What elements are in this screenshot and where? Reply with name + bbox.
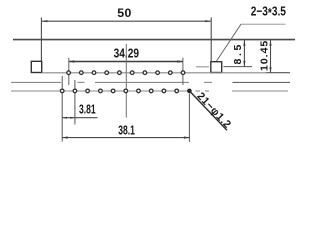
bottom hole row: 11 holes phi1.2 [60,89,178,93]
svg-text:10.45: 10.45 [258,40,270,71]
dimension 34.29 : dim line [69,61,183,63]
extension tick through top hole 1 (34.29 left ext) [68,58,70,85]
svg-text:2−3*3.5: 2−3*3.5 [251,4,287,20]
dimension 50 : right extension line [210,18,212,62]
top hole row: 10 holes phi1.2 [67,71,185,75]
top edge line of part [13,39,295,41]
svg-text:3.81: 3.81 [79,103,96,117]
svg-text:50: 50 [117,6,131,20]
dimension 8.5 : bottom arrow [243,61,245,67]
dimension 10.45 : dim line [270,40,272,73]
leader 21-phi1.2 : line [189,91,227,130]
svg-text:8.5: 8.5 [232,42,244,64]
squares centerline (dash left of right square) [196,66,209,68]
dimension 3.81 : dim line with shelf [62,117,97,119]
dimension 50 : left arrow [42,20,48,22]
dimension 10.45 : bottom arrow [269,67,271,73]
dimension 50 : right arrow [205,20,211,22]
left mounting square 3x3.5 [31,61,41,72]
dimension 8.5 : top arrow [243,40,245,46]
svg-text:38.1: 38.1 [118,124,135,138]
dimension 34.29 : right arrow [177,60,183,62]
label 2-3*3.5 : leader diagonal to right square [216,24,241,61]
dimension 38.1 : left arrow [62,136,67,138]
dimension 50 : left extension line [40,18,42,62]
dimension 3.81 : arrows [62,117,67,119]
dimension 38.1 : right arrow [184,136,190,138]
dimension 34.29 : left arrow [69,60,75,62]
top hole row centerline dark right segment / 10.45 extension [266,72,290,74]
bottom hole row centerline [11,90,288,92]
right mounting square 3x3.5 [211,62,222,73]
dimension 8.5 : dim line [243,40,245,66]
label 2-3*3.5 : leader shelf [241,23,286,25]
vertical centerline of pattern [125,44,127,118]
dimension 38.1 : dim line [62,137,189,139]
phantom line between rows [11,81,212,83]
bottom hole 11 (filled, leader target) [187,89,192,94]
phantom line dark right segment [233,81,291,83]
squares centerline dark segment / 8.5 extension [224,66,253,68]
dimension 10.45 : top arrow [269,40,271,46]
top hole row centerline [42,72,266,74]
extension tick bottom hole 1 (3.81 / 38.1 left ext) [61,76,63,142]
extension tick through top hole 10 (34.29 right ext) [182,58,184,85]
extension tick bottom hole 2 (3.81 right ext) [74,80,76,125]
extension tick bottom hole 11 (38.1 right ext) [188,94,190,142]
dimension 50 : dim line [42,20,211,22]
